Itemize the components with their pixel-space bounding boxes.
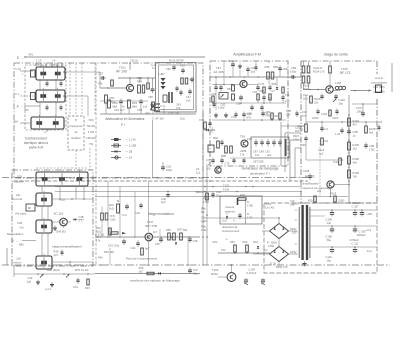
- coil L2 transformer assembly: [36, 90, 65, 102]
- svg-text:étage préamplificateur: étage préamplificateur: [52, 245, 82, 249]
- svg-text:R68: R68: [272, 83, 277, 86]
- component sortie row2: [329, 110, 331, 116]
- wire note arrow: [44, 129, 50, 133]
- capacitor C60: [172, 66, 175, 68]
- electrolytic C107 pair: [353, 212, 357, 214]
- svg-text:R66: R66: [273, 65, 278, 69]
- svg-text:C85: C85: [247, 137, 252, 141]
- capacitor C117: [361, 112, 365, 114]
- trimmer C122: [333, 99, 337, 103]
- resistor R53: [147, 83, 150, 89]
- svg-text:7nd: 7nd: [122, 213, 127, 217]
- svg-text:F M: F M: [16, 67, 22, 71]
- svg-text:F L: F L: [16, 92, 21, 96]
- svg-text:— 1B: — 1B: [125, 150, 132, 154]
- svg-text:R61: R61: [230, 240, 235, 244]
- wire power top: [203, 217, 279, 219]
- wire staircase 2: [284, 133, 286, 172]
- wire mid verticals: [95, 63, 97, 265]
- svg-text:0,047µF: 0,047µF: [247, 271, 257, 275]
- svg-text:R63: R63: [243, 240, 248, 244]
- wire emitter bus: [100, 100, 148, 102]
- svg-text:étage de sortie: étage de sortie: [324, 53, 348, 57]
- component mid cluster2: [139, 204, 142, 206]
- svg-text:C108: C108: [326, 235, 333, 239]
- caps row under box: [232, 159, 235, 161]
- wire FM lead: [20, 70, 33, 72]
- wire secondary 2: [310, 225, 377, 227]
- svg-text:1k2: 1k2: [139, 269, 144, 273]
- resistor R54: [128, 100, 131, 108]
- wire power rail: [218, 252, 270, 254]
- svg-text:R95: R95: [203, 197, 208, 201]
- wire base T101: [100, 87, 126, 89]
- svg-text:R10A: R10A: [313, 69, 320, 73]
- svg-text:C70: C70: [260, 83, 265, 86]
- svg-text:identique dans la: identique dans la: [24, 141, 48, 145]
- svg-text:C73: C73: [285, 99, 290, 103]
- capacitor C68: [239, 96, 243, 98]
- svg-text:C87: C87: [253, 150, 258, 154]
- svg-text:régl.: régl.: [145, 111, 151, 115]
- resistor R88: [225, 146, 228, 153]
- wire A lead: [24, 105, 40, 107]
- capacitor C79: [220, 159, 223, 161]
- svg-text:R46: R46: [98, 257, 103, 260]
- wire junction column: [202, 110, 204, 265]
- svg-text:M.AL/25ºW: M.AL/25ºW: [169, 58, 184, 62]
- wire left edge: [6, 248, 8, 265]
- svg-text:+R88: +R88: [240, 149, 247, 153]
- wire secondary 3: [310, 246, 377, 248]
- svg-text:vers le: vers le: [375, 76, 384, 80]
- wire output: [333, 90, 340, 92]
- wire modulator rail: [95, 236, 200, 238]
- svg-text:1µF: 1µF: [327, 221, 332, 225]
- svg-text:1600µF: 1600µF: [357, 233, 367, 237]
- capacitor C87: [254, 141, 258, 143]
- diode mod: [175, 242, 177, 244]
- wire FM main rail: [210, 76, 301, 78]
- component top right cluster: [161, 78, 166, 81]
- svg-text:B. 30: B. 30: [270, 262, 277, 266]
- svg-text:1 3 5: 1 3 5: [36, 60, 42, 63]
- wire signal line 3: [95, 196, 302, 198]
- wire rotacteur top: [36, 167, 88, 169]
- legend item 1: [111, 139, 121, 141]
- component C47b: [188, 269, 192, 271]
- resistor R56: [168, 233, 171, 240]
- bridge rectifier B2: [270, 247, 289, 262]
- diode D5: [158, 272, 161, 275]
- svg-text:R10·: R10·: [303, 87, 309, 91]
- capacitor C45m: [159, 238, 163, 240]
- resistor R52: [108, 100, 111, 108]
- block box amplificateur FM: [210, 61, 288, 166]
- coil tuner assembly: [36, 172, 88, 186]
- svg-text:4µ7: 4µ7: [54, 253, 59, 257]
- wire chassis bus lower: [14, 180, 308, 182]
- wire vertical coil links: [41, 186, 43, 193]
- svg-text:extern: extern: [14, 261, 22, 265]
- wire B lead: [22, 240, 36, 242]
- wire E supply line: [25, 56, 205, 58]
- svg-text:C122: C122: [339, 98, 346, 102]
- svg-text:R110: R110: [308, 199, 315, 203]
- capacitor C72: [250, 106, 253, 108]
- svg-text:1kw: 1kw: [201, 207, 206, 211]
- svg-text:100p: 100p: [357, 109, 363, 113]
- component left FM lower: [204, 122, 207, 129]
- svg-text:AC 116: AC 116: [54, 212, 64, 216]
- svg-text:s·: s·: [209, 161, 211, 164]
- block box lower left: [12, 170, 93, 266]
- svg-text:7k6: 7k6: [195, 190, 200, 194]
- svg-text:+150: +150: [366, 212, 372, 216]
- svg-text:C103: C103: [295, 126, 302, 130]
- ground bottom 1: [37, 280, 39, 282]
- svg-text:R84: R84: [213, 136, 218, 140]
- capacitor C66: [219, 86, 222, 88]
- svg-text:10µ: 10µ: [327, 259, 332, 263]
- svg-text:7W: 7W: [89, 142, 94, 146]
- svg-text:70%: 70%: [88, 118, 94, 122]
- svg-text:A28 (2k)Ω: A28 (2k)Ω: [47, 268, 60, 272]
- svg-text:17kΩ: 17kΩ: [247, 203, 253, 207]
- svg-text:1kΩ: 1kΩ: [180, 117, 185, 121]
- wire bridge links: [289, 230, 298, 232]
- box AM coils group: [25, 65, 66, 130]
- wire FM mid bus: [212, 102, 286, 104]
- component column a: [256, 86, 259, 88]
- svg-text:Fréquence: Fréquence: [69, 124, 83, 128]
- svg-text:C·1n: C·1n: [160, 105, 166, 108]
- svg-text:générateur F I: générateur F I: [250, 172, 270, 176]
- capacitor C64: [214, 86, 217, 88]
- svg-text:R10B: R10B: [303, 84, 310, 88]
- svg-text:100p: 100p: [290, 70, 297, 74]
- svg-text:4,5W: 4,5W: [88, 130, 95, 134]
- svg-text:30p: 30p: [339, 101, 344, 105]
- svg-text:1,2k: 1,2k: [335, 132, 341, 136]
- transistor T2: [60, 218, 68, 226]
- wire signal line 1: [55, 186, 302, 188]
- svg-text:BF 173: BF 173: [340, 71, 351, 75]
- capacitor C26: [161, 166, 165, 168]
- legend item 2: [111, 145, 121, 147]
- svg-text:R9·: R9·: [201, 210, 205, 214]
- transistor T102 power: [227, 273, 236, 282]
- capacitor C29: [365, 126, 368, 133]
- ground top FM: [239, 64, 241, 66]
- svg-text:B250 C75: B250 C75: [276, 265, 288, 269]
- svg-text:R45 1kΩ: R45 1kΩ: [104, 250, 114, 254]
- svg-text:— 1,17k: — 1,17k: [125, 138, 136, 142]
- svg-text:Amplificateur F.M: Amplificateur F.M: [233, 53, 261, 57]
- svg-text:détecteur de: détecteur de: [222, 225, 238, 229]
- svg-text:0,5W: 0,5W: [268, 244, 275, 248]
- svg-text:R70 10 kΩ: R70 10 kΩ: [75, 268, 88, 272]
- label C67 mid: [175, 87, 178, 89]
- svg-text:C124: C124: [318, 148, 325, 152]
- svg-text:R108: R108: [353, 171, 360, 175]
- capacitor C67: [246, 68, 249, 70]
- connector output block: [376, 85, 382, 93]
- svg-text:F I: F I: [121, 123, 125, 127]
- wire T61 row rail: [212, 84, 240, 86]
- svg-text:1µ0: 1µ0: [302, 113, 307, 117]
- svg-text:R120: R120: [314, 97, 321, 101]
- vertical dashed links left: [69, 63, 71, 116]
- svg-text:C42: C42: [216, 190, 221, 194]
- capacitor C93: [272, 141, 276, 143]
- capacitor C78: [211, 159, 214, 161]
- svg-text:T63: T63: [240, 135, 245, 139]
- svg-text:125mW: 125mW: [86, 136, 96, 140]
- box wattmetre: [220, 196, 262, 224]
- svg-text:F104: F104: [223, 188, 230, 192]
- capacitor C104a hatched: [244, 279, 248, 281]
- svg-text:Générateur de marquage: Générateur de marquage: [241, 167, 278, 171]
- capacitor C55: [151, 88, 155, 90]
- capacitor C61: [231, 63, 235, 65]
- block box attenuateur-generateur FI: [14, 63, 203, 178]
- svg-text:l'enfoncement: l'enfoncement: [222, 229, 240, 233]
- resistor R110: [339, 158, 342, 165]
- svg-text:2×800µF: 2×800µF: [350, 201, 361, 205]
- capacitor C51: [119, 100, 123, 102]
- svg-text:3p3: 3p3: [251, 69, 256, 73]
- svg-text:C106: C106: [326, 218, 333, 222]
- svg-text:mesure: mesure: [225, 205, 235, 209]
- potentiometer P51: [150, 106, 154, 110]
- component left mid: [217, 141, 220, 148]
- component column c: [268, 86, 271, 88]
- svg-text:C53: C53: [137, 108, 143, 112]
- component marks between coils: [39, 79, 41, 90]
- svg-text:R²: R²: [28, 206, 31, 210]
- capacitor C40 on line: [166, 194, 169, 196]
- box R12 injecteur: [26, 204, 35, 211]
- svg-text:230V: 230V: [290, 250, 297, 254]
- svg-text:R86: R86: [266, 113, 271, 117]
- wire T106 links: [334, 184, 349, 186]
- svg-text:5,10 4Ω: 5,10 4Ω: [265, 205, 274, 209]
- svg-text:4k7: 4k7: [353, 122, 358, 126]
- svg-text:R82: R82: [211, 128, 216, 132]
- component watt cluster: [238, 214, 241, 216]
- transistor T101: [126, 84, 133, 91]
- svg-text:C60: C60: [166, 67, 171, 71]
- svg-text:C79: C79: [225, 162, 230, 166]
- svg-text:C43: C43: [176, 103, 181, 107]
- svg-text:amplitude des signaux de M: amplitude des signaux de Marquage: [130, 279, 180, 283]
- wire signal line 2: [55, 191, 302, 193]
- resistor R120: [310, 96, 313, 103]
- svg-text:1k7Ω: 1k7Ω: [265, 202, 271, 206]
- capacitor C108: [330, 228, 334, 230]
- svg-text:17k2: 17k2: [201, 228, 207, 232]
- resistor R104: [348, 118, 351, 126]
- svg-text:C2B: C2B: [369, 144, 374, 148]
- svg-text:R10: R10: [334, 160, 339, 164]
- svg-text:1n5: 1n5: [143, 106, 148, 109]
- svg-text:AC151: AC151: [305, 175, 315, 179]
- wire sortie inner: [306, 121, 377, 123]
- block box etage de sortie: [301, 60, 377, 62]
- svg-text:R109: R109: [330, 192, 337, 196]
- svg-text:R··: R··: [247, 212, 251, 216]
- diode D8 bar: [237, 198, 239, 205]
- component R41 cluster: [117, 204, 120, 213]
- box filter unit: [156, 63, 197, 113]
- svg-text:C10: C10: [302, 110, 307, 114]
- svg-text:C61: C61: [228, 59, 233, 63]
- svg-text:C71: C71: [285, 93, 290, 97]
- svg-text:6042: 6042: [211, 272, 218, 276]
- svg-text:étage modulateur: étage modulateur: [148, 212, 175, 216]
- svg-text:C117: C117: [356, 106, 363, 110]
- svg-text:1,4B7: 1,4B7: [158, 73, 165, 76]
- wire bottom signal: [95, 273, 200, 275]
- wire staircase 4: [294, 148, 296, 178]
- transistor T64 generateur FI: [215, 167, 221, 173]
- svg-text:17d: 17d: [320, 69, 325, 73]
- svg-text:17k2: 17k2: [201, 219, 207, 223]
- svg-text:5 6: 5 6: [52, 64, 56, 67]
- svg-text:R· 100Ω: R· 100Ω: [267, 241, 277, 245]
- svg-text:220V: 220V: [290, 227, 297, 231]
- capacitor C43: [181, 69, 184, 71]
- svg-text:Manipulation: Manipulation: [7, 232, 24, 236]
- svg-text:R··: R··: [247, 200, 251, 204]
- coil L3 transformer assembly: [31, 117, 64, 129]
- capacitor C89: [260, 141, 264, 143]
- wire right links lowerleft: [52, 261, 93, 263]
- svg-text:Vm: Vm: [20, 226, 25, 230]
- svg-text:amplificateur: amplificateur: [303, 182, 319, 186]
- component T2 right: [74, 218, 76, 220]
- svg-text:17k: 17k: [240, 152, 245, 156]
- svg-text:C76: C76: [231, 115, 236, 119]
- svg-text:17kΩ: 17kΩ: [203, 200, 209, 204]
- ground af106: [152, 103, 154, 105]
- transistor T107: [145, 233, 153, 241]
- svg-text:2 220: 2 220: [292, 202, 299, 206]
- svg-text:100: 100: [378, 121, 383, 124]
- block box power: [264, 203, 377, 273]
- wire heavy bottom bus: [2, 264, 390, 266]
- svg-text:23V: 23V: [213, 240, 218, 244]
- svg-text:17k2: 17k2: [293, 137, 299, 141]
- svg-text:←: ←: [22, 56, 25, 60]
- svg-text:R106: R106: [353, 157, 360, 161]
- wire FL lead: [20, 95, 33, 97]
- svg-text:Atténuateur et Générateur: Atténuateur et Générateur: [105, 117, 145, 121]
- svg-text:R56: R56: [166, 228, 171, 232]
- svg-text:1·1: 1·1: [79, 218, 83, 222]
- transistor T105: [326, 86, 333, 93]
- component column d: [282, 87, 284, 93]
- electrolytic C109 pair: [353, 228, 357, 230]
- capacitor C53: [139, 100, 143, 102]
- svg-text:750: 750: [24, 108, 29, 112]
- wire right column: [348, 95, 350, 203]
- svg-text:C104: C104: [249, 268, 256, 272]
- svg-text:75V: 75V: [28, 53, 33, 57]
- ground bottom 2: [51, 282, 53, 284]
- component cluster lines: [206, 193, 209, 200]
- capacitor C57: [101, 76, 103, 80]
- svg-text:→: →: [21, 105, 24, 108]
- svg-text:R41: R41: [109, 203, 114, 207]
- svg-text:Pet.ond.: Pet.ond.: [13, 197, 24, 201]
- coil L1 transformer assembly: [36, 67, 65, 80]
- capacitor C28: [340, 129, 343, 131]
- svg-text:fonctionnement: fonctionnement: [25, 137, 47, 141]
- svg-text:R·B: R·B: [110, 214, 115, 218]
- svg-text:L63: L63: [253, 90, 258, 94]
- svg-text:C89: C89: [259, 150, 264, 154]
- capacitor C91: [266, 141, 270, 143]
- diode D7: [226, 216, 228, 218]
- svg-text:C59 1k: C59 1k: [130, 60, 139, 63]
- resistor R50: [111, 80, 114, 86]
- capacitor C102: [316, 110, 319, 112]
- svg-text:C43: C43: [180, 64, 185, 68]
- resistor R61: [232, 85, 235, 91]
- coil L51: [138, 85, 141, 93]
- svg-text:C91: C91: [265, 150, 270, 154]
- svg-text:AM: AM: [14, 120, 19, 124]
- svg-text:R9b: R9b: [201, 225, 206, 229]
- wire staircase 1: [280, 122, 282, 166]
- transformer TR1 windings: [298, 207, 300, 258]
- svg-text:striation: striation: [71, 136, 81, 140]
- svg-text:C102: C102: [312, 116, 319, 120]
- component C84: [261, 112, 264, 114]
- svg-text:2-20p: 2-20p: [218, 106, 225, 110]
- svg-text:partie A.M: partie A.M: [29, 146, 44, 150]
- svg-text:R44: R44: [96, 235, 101, 239]
- wire left bottom: [14, 273, 95, 275]
- wire sortie bottom: [302, 196, 348, 198]
- svg-text:50µ: 50µ: [327, 238, 332, 242]
- svg-text:L102: L102: [321, 112, 327, 116]
- svg-text:R105: R105: [353, 143, 360, 147]
- capacitor C110: [330, 249, 334, 251]
- wire coil outputs: [64, 71, 100, 73]
- svg-text:74V: 74V: [221, 248, 226, 252]
- svg-text:100: 100: [286, 112, 291, 116]
- wire LW out: [52, 198, 93, 200]
- svg-text:1kΩ: 1kΩ: [303, 96, 308, 100]
- svg-text:1k7: 1k7: [153, 231, 158, 234]
- svg-text:— 1A: — 1A: [125, 156, 132, 160]
- resistor R45: [181, 78, 184, 84]
- svg-text:C4B: C4B: [79, 215, 84, 219]
- resistor R105: [348, 142, 351, 150]
- svg-text:→: →: [16, 240, 19, 243]
- svg-text:4µ7: 4µ7: [145, 247, 150, 251]
- svg-text:C1: C1: [325, 127, 329, 131]
- resistor pair mid: [101, 213, 104, 220]
- svg-text:C 107: C 107: [352, 205, 360, 209]
- svg-text:L103: L103: [335, 81, 341, 85]
- svg-text:1µ2: 1µ2: [196, 170, 201, 174]
- svg-text:17k2: 17k2: [247, 215, 253, 219]
- svg-text:C44: C44: [131, 246, 136, 250]
